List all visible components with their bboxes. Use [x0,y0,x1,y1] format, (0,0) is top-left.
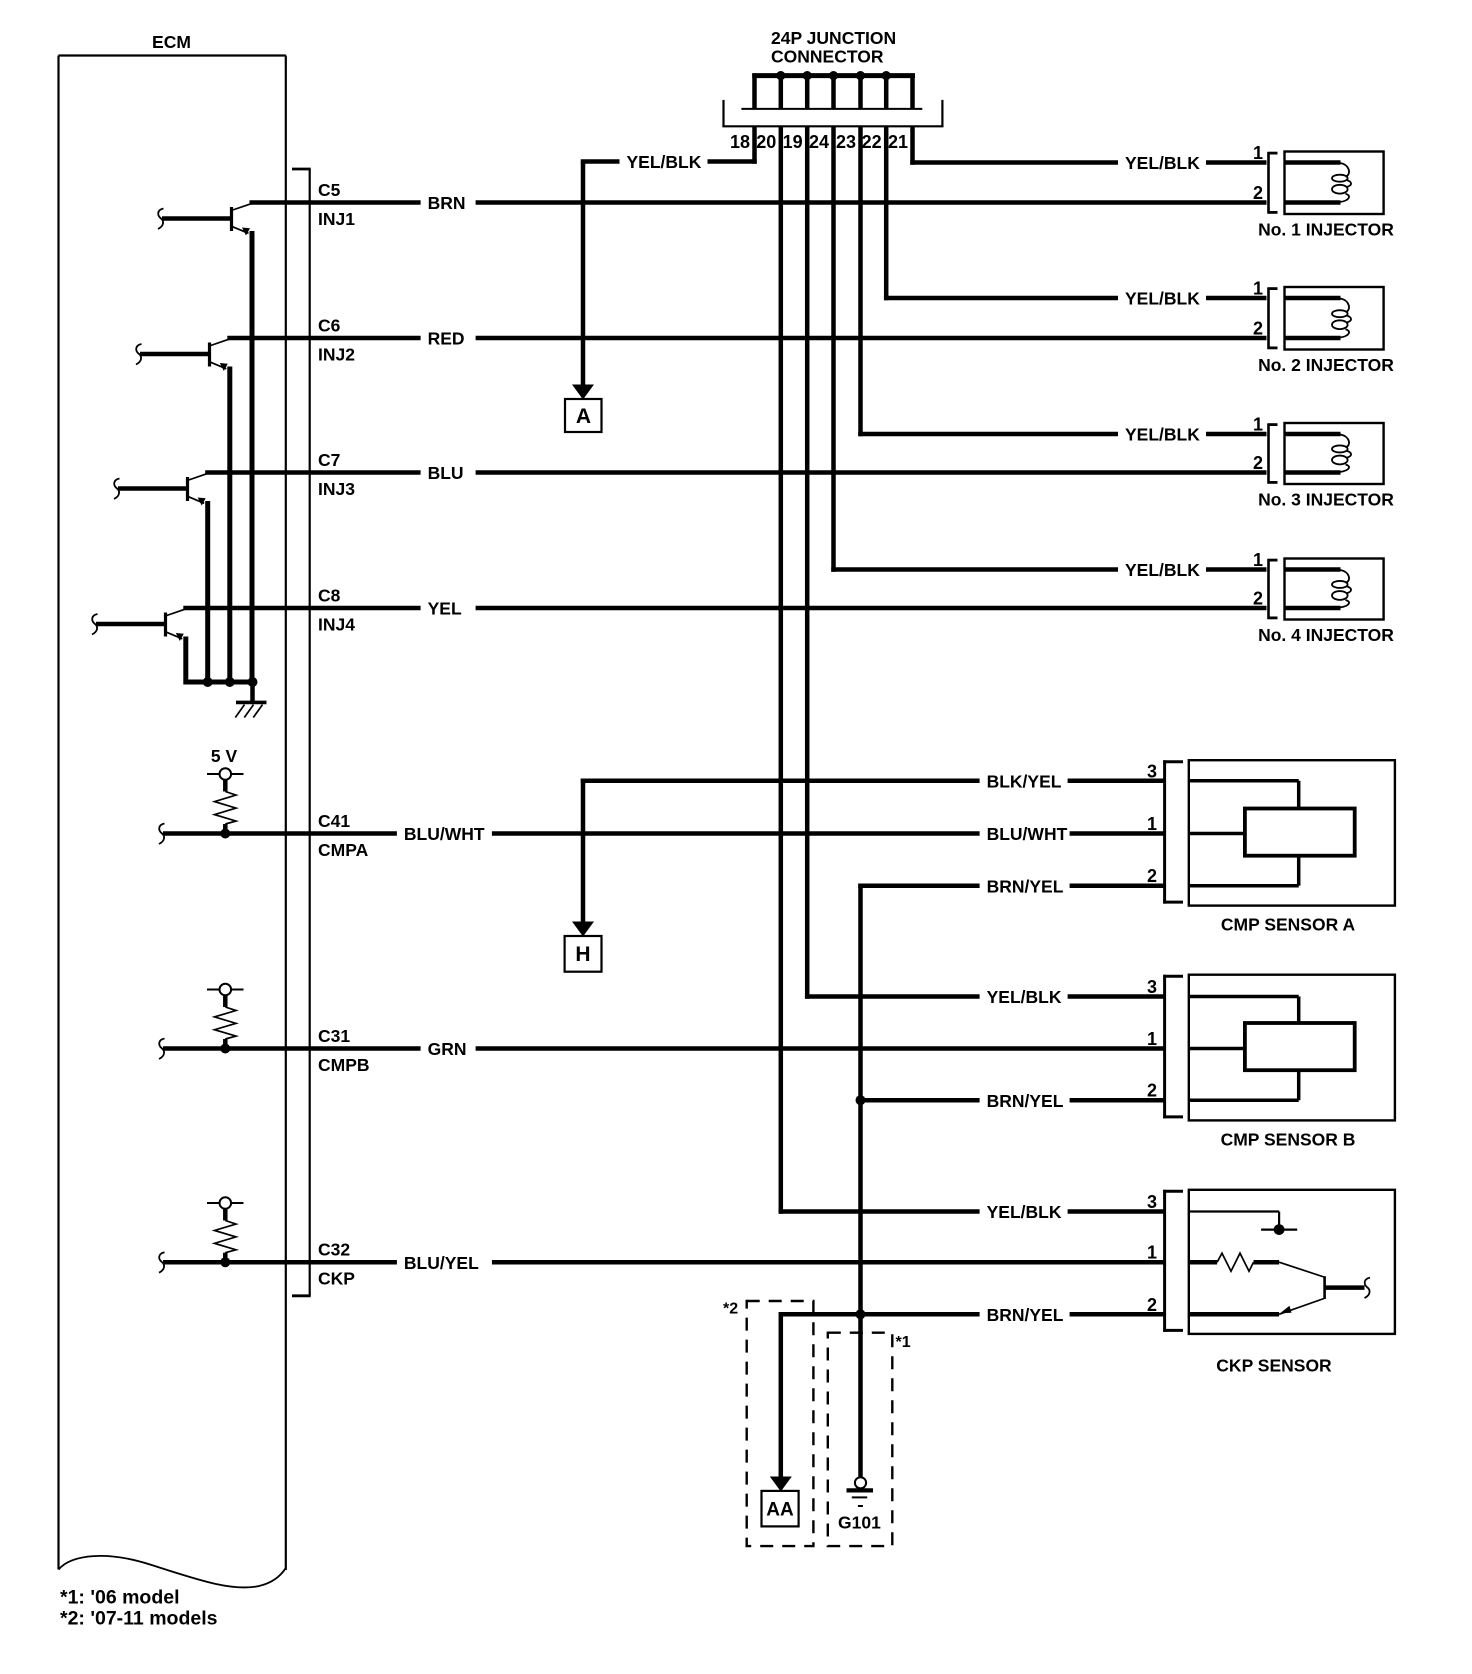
svg-text:ECM: ECM [152,32,191,52]
junction dot CMP B pin 2 [856,1095,866,1105]
svg-text:C5: C5 [318,180,341,200]
CKP sensor pickup coil resistance (pin 1) [1189,1260,1217,1265]
transistor Q4 emitter wire to ground rail [183,637,188,685]
wire from pin 18 down to YEL/BLK (to connector A) [752,126,757,163]
svg-text:2: 2 [1253,319,1263,339]
wire break symbol at ECM row start [159,824,165,845]
CMP sensor A element [1245,809,1355,856]
24P junction connector body [741,108,922,110]
transistor Q1 base bar [230,207,233,231]
transistor Q2 collector [211,339,230,346]
svg-text:2: 2 [1147,866,1157,886]
transistor Q2 (INJ2 driver) base wire [140,352,210,357]
svg-text:2: 2 [1147,1295,1157,1315]
svg-text:YEL/BLK: YEL/BLK [1125,560,1200,580]
5V supply terminal circle (CMPB pull-up) [207,989,244,991]
wire down to connector A arrow [581,162,586,386]
wire label YEL [421,597,476,619]
pull-up resistor R-CMPB [223,995,228,1007]
injector L4 coil [1285,567,1341,572]
transistor Q1 collector [233,203,253,210]
wire from pin 19 down to CMP sensor B pin 3 row [805,126,810,998]
svg-text:CKP: CKP [318,1269,355,1289]
No. 2 injector harness connector [1267,288,1270,350]
injector L1 coil [1285,160,1341,165]
injector L3 coil [1285,432,1341,437]
svg-text:H: H [575,943,590,966]
connector A box [565,399,602,432]
transistor Q2 emitter [211,362,227,369]
wire BRN/YEL (ground net to CMP sensor A pin 2) [858,883,1164,888]
wire label YEL/BLK (No.1 injector) [1118,152,1206,174]
transistor Q4 emitter [167,632,183,639]
svg-text:1: 1 [1147,1029,1157,1049]
junction dots on ground rail [203,677,213,687]
svg-text:20: 20 [756,132,776,152]
svg-text:24P JUNCTION: 24P JUNCTION [771,28,896,48]
wire label YEL/BLK (CKP) [980,1201,1068,1223]
wire YEL/BLK (pin 18 to connector A) [581,159,757,164]
transistor Q4 base break symbol [92,614,98,635]
svg-text:YEL/BLK: YEL/BLK [1125,289,1200,309]
connector AA box [762,1491,799,1527]
svg-text:CMPB: CMPB [318,1055,370,1075]
svg-text:INJ1: INJ1 [318,209,355,229]
wire label BRN/YEL (CMP B) [980,1089,1070,1111]
wire C32 BLU/YEL (ECM to CKP sensor pin 1) [163,1260,1164,1265]
CMP sensor B box [1189,975,1395,1121]
junction dot (CMPB pull-up) [220,1044,230,1054]
svg-text:YEL/BLK: YEL/BLK [987,1202,1062,1222]
svg-text:No. 3 INJECTOR: No. 3 INJECTOR [1258,490,1394,510]
wire from pin 24 down to No.4 injector pin 1 row [831,126,836,571]
No. 1 injector harness connector [1267,152,1270,214]
svg-text:BLU/WHT: BLU/WHT [404,824,485,844]
wire YEL/BLK (pin 20 to CKP sensor pin 3) [779,1209,1165,1214]
svg-text:CMPA: CMPA [318,840,369,860]
CMP sensor B internal wiring [1189,995,1299,999]
svg-text:CMP SENSOR A: CMP SENSOR A [1221,915,1356,935]
ECM box outline [59,54,286,56]
wire label GRN [421,1038,476,1060]
svg-text:18: 18 [730,132,750,152]
transistor Q1 emitter wire to ground rail [250,231,255,685]
wire BRN/YEL (ground net to CKP sensor pin 2) [781,1312,1165,1317]
wire C5 BRN (ECM to No.1 injector pin 2) [250,200,1267,205]
wire from pin 22 down to No.2 injector pin 1 row [884,126,889,300]
transistor Q3 collector [189,473,208,480]
ground G101 terminal [855,1477,866,1488]
svg-text:*2: *2 [723,1301,738,1318]
transistor Q3 base break symbol [114,479,120,500]
wire label BLU [421,462,476,484]
svg-text:C8: C8 [318,586,341,606]
wire label BRN/YEL (CKP) [980,1303,1070,1325]
wire down to connector AA arrow [779,1312,784,1477]
wire YEL/BLK (junction connector to No.3 injector pin 1) [858,432,1266,437]
transistor Q1 (INJ1 driver) base wire [162,216,232,221]
transistor Q2 base break symbol [136,344,142,365]
dashed box *1 (06 model) [828,1333,893,1546]
svg-text:3: 3 [1147,761,1157,781]
CKP sensor output break symbol [1365,1278,1371,1299]
transistor Q4 base bar [164,613,167,637]
svg-text:2: 2 [1253,183,1263,203]
No. 3 injector harness connector [1267,424,1270,484]
svg-text:C41: C41 [318,811,350,831]
svg-text:2: 2 [1147,1081,1157,1101]
CKP sensor harness connector [1163,1190,1166,1332]
svg-text:*2: '07-11 models: *2: '07-11 models [60,1608,218,1630]
svg-text:BLK/YEL: BLK/YEL [987,771,1062,791]
CKP sensor ground wire (pin 2) [1189,1312,1279,1317]
svg-text:BRN: BRN [428,193,466,213]
5V supply terminal circle (CKP pull-up) [207,1202,244,1204]
wire label BLU/WHT (CMP sensor A pin 1) [980,823,1070,845]
svg-text:C32: C32 [318,1240,350,1260]
svg-text:3: 3 [1147,1192,1157,1212]
transistor Q3 base bar [186,477,189,501]
wire break symbol at ECM row start [159,1252,165,1273]
CMP sensor B harness connector [1163,975,1166,1119]
wire label BLU/WHT [397,823,492,845]
svg-text:1: 1 [1253,415,1263,435]
svg-text:YEL: YEL [428,599,462,619]
24P junction connector pin stubs [752,74,757,109]
svg-text:19: 19 [783,132,803,152]
svg-text:C31: C31 [318,1026,350,1046]
svg-text:1: 1 [1253,279,1263,299]
svg-text:RED: RED [428,329,465,349]
wire from pin 23 down to No.3 injector pin 1 row [858,126,863,436]
common emitter ground rail [184,680,256,685]
transistor Q3 emitter [189,497,205,504]
connector H box [565,936,602,972]
wire break symbol at ECM row start [159,1039,165,1060]
wire label YEL/BLK (No.3 injector) [1118,423,1206,445]
svg-text:21: 21 [888,132,908,152]
svg-text:BLU: BLU [428,463,464,483]
CMP sensor A internal wiring [1189,779,1299,783]
wire label BRN [421,192,476,214]
svg-text:INJ3: INJ3 [318,479,355,499]
svg-text:BRN/YEL: BRN/YEL [987,876,1064,896]
transistor Q2 base bar [208,343,211,367]
svg-text:GRN: GRN [428,1039,467,1059]
wire YEL/BLK (junction connector to No.2 injector pin 1) [884,296,1267,301]
svg-text:BLU/YEL: BLU/YEL [404,1253,479,1273]
svg-text:C6: C6 [318,316,341,336]
svg-text:A: A [576,405,591,428]
svg-text:YEL/BLK: YEL/BLK [1125,425,1200,445]
svg-text:1: 1 [1147,814,1157,834]
wire label BLU/YEL [397,1251,492,1273]
wire YEL/BLK (junction connector to No.1 injector pin 1) [910,160,1266,165]
transistor Q4 collector [167,609,186,616]
CMP sensor A box [1189,760,1395,905]
junction dot (CKP pull-up) [220,1257,230,1267]
injector L2 coil [1285,296,1341,301]
injector L3 box (No. 3 INJECTOR) [1285,423,1384,484]
wire C31 GRN (ECM to CMP sensor B pin 1) [163,1046,1164,1051]
svg-text:1: 1 [1147,1243,1157,1263]
svg-text:CKP SENSOR: CKP SENSOR [1216,1356,1332,1376]
svg-text:No. 2 INJECTOR: No. 2 INJECTOR [1258,355,1394,375]
wire label YEL/BLK (No.4 injector) [1118,559,1206,581]
injector L2 box (No. 2 INJECTOR) [1285,287,1384,350]
svg-text:INJ2: INJ2 [318,345,355,365]
svg-text:*1: *1 [896,1334,911,1351]
wire from pin 20 down to CKP sensor pin 3 row [779,126,784,1213]
svg-text:*1: '06 model: *1: '06 model [60,1587,180,1609]
wire YEL/BLK (pin 19 to CMP sensor B pin 3) [805,994,1164,999]
pull-up resistor R-CKP [223,1209,228,1221]
CKP sensor shield wire (pin 3) [1189,1210,1279,1212]
svg-text:G101: G101 [838,1513,881,1533]
wire YEL/BLK (junction connector to No.4 injector pin 1) [831,567,1266,572]
chassis ground symbol [250,682,255,702]
wire from pin 21 down to No.1 injector pin 1 row [910,126,915,164]
wire label BRN/YEL (CMP A) [980,875,1070,897]
svg-text:YEL/BLK: YEL/BLK [1125,153,1200,173]
svg-text:YEL/BLK: YEL/BLK [627,152,702,172]
CKP sensor pickup element [1279,1262,1324,1277]
wire label RED [421,327,476,349]
wire label YEL/BLK (CMP B) [980,986,1068,1008]
injector L4 box (No. 4 INJECTOR) [1285,559,1384,620]
svg-text:BRN/YEL: BRN/YEL [987,1305,1064,1325]
No. 4 injector harness connector [1267,559,1270,619]
svg-text:C7: C7 [318,450,340,470]
transistor Q2 emitter wire to ground rail [227,367,232,685]
injector L1 box (No. 1 INJECTOR) [1285,152,1384,215]
wire BRN/YEL (ground net to CMP sensor B pin 2) [861,1098,1165,1103]
dashed box *2 (07-11 models) [747,1301,814,1546]
svg-text:INJ4: INJ4 [318,615,355,635]
bus bar junction dots [776,71,785,80]
svg-text:1: 1 [1253,143,1263,163]
svg-text:YEL/BLK: YEL/BLK [987,987,1062,1007]
transistor Q3 emitter wire to ground rail [205,501,210,685]
transistor Q1 emitter [233,227,249,234]
CKP sensor box [1189,1190,1395,1334]
svg-text:No. 1 INJECTOR: No. 1 INJECTOR [1258,220,1394,240]
CMP sensor B element [1245,1023,1355,1070]
wire label YEL/BLK (No.2 injector) [1118,287,1206,309]
wire label YEL/BLK (top left) [620,151,708,173]
svg-text:BLU/WHT: BLU/WHT [987,824,1068,844]
wire C41 BLU/WHT (ECM to CMP sensor A pin 1) [163,831,1164,836]
svg-text:23: 23 [836,132,856,152]
pull-up resistor R-CMPA [223,780,228,792]
svg-text:22: 22 [862,132,882,152]
transistor Q3 (INJ3 driver) base wire [118,486,188,491]
svg-text:5 V: 5 V [211,746,238,766]
transistor Q1 base break symbol [158,209,164,230]
svg-text:2: 2 [1253,589,1263,609]
5V supply terminal circle (CMPA pull-up) [207,773,244,775]
svg-text:CMP SENSOR B: CMP SENSOR B [1221,1129,1356,1149]
junction dot (CMPA pull-up) [220,829,230,839]
wire BLK/YEL (CMP sensor A pin 3) with turn down to connector H [581,779,1165,784]
wire C8 YEL (ECM to No.4 injector pin 2) [183,606,1266,611]
svg-text:CONNECTOR: CONNECTOR [771,47,884,67]
wire label BLK/YEL [980,770,1068,792]
wire C7 BLU (ECM to No.3 injector pin 2) [205,470,1266,475]
CMP sensor A harness connector [1163,760,1166,903]
junction dot CKP pin 2 / ground branch [856,1309,866,1319]
svg-text:24: 24 [809,132,829,152]
ECM connector bracket [309,169,311,1296]
svg-text:BRN/YEL: BRN/YEL [987,1091,1064,1111]
24P junction connector bus bar [752,73,915,78]
wire C6 RED (ECM to No.2 injector pin 2) [227,336,1266,341]
svg-text:No. 4 INJECTOR: No. 4 INJECTOR [1258,625,1394,645]
svg-text:1: 1 [1253,550,1263,570]
ground net vertical (BRN/YEL common) [858,883,863,1477]
svg-text:3: 3 [1147,977,1157,997]
transistor Q4 (INJ4 driver) base wire [96,622,166,627]
svg-text:2: 2 [1253,453,1263,473]
svg-text:AA: AA [766,1500,794,1521]
